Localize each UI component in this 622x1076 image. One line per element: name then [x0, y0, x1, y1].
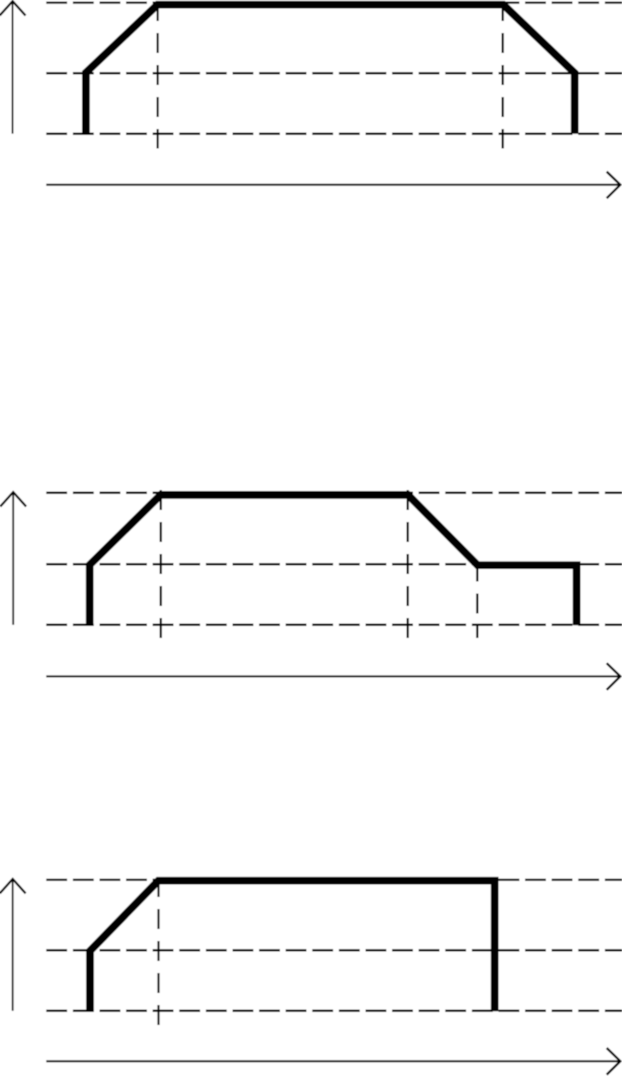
waveform trace (diagram 3 trapezoid with hard stop): [90, 881, 495, 1012]
y-axis arrow (diagram 2): [0, 492, 26, 625]
top dashed level line (diagram 1, v-max): [46, 1, 622, 3]
y-axis arrow (diagram 1): [0, 1, 25, 133]
bottom dashed level line (diagram 3, zero): [46, 1010, 622, 1012]
y-axis arrow (diagram 3): [0, 879, 26, 1011]
middle dashed level line (diagram 2, v-start): [46, 563, 622, 565]
vertical dashed guide t3 (diagram 2): [476, 562, 478, 639]
vertical dashed guide t1 (diagram 1): [157, 1, 159, 149]
vertical dashed guide t2 (diagram 2): [407, 490, 409, 639]
middle dashed level line (diagram 1, v-start): [46, 72, 622, 74]
bottom dashed level line (diagram 2, zero): [46, 624, 622, 626]
vertical dashed guide t1 (diagram 2): [160, 490, 162, 639]
x-axis arrow (diagram 1): [46, 172, 620, 199]
top dashed level line (diagram 2, v-max): [46, 492, 622, 494]
middle dashed level line (diagram 3, v-start): [46, 949, 622, 951]
waveform trace (diagram 1 trapezoid): [86, 5, 575, 134]
bottom dashed level line (diagram 1, zero): [46, 133, 622, 135]
vertical dashed guide t2 (diagram 1): [502, 1, 504, 149]
vertical dashed guide t1 (diagram 3): [157, 877, 159, 1026]
top dashed level line (diagram 3, v-max): [46, 879, 622, 881]
x-axis arrow (diagram 2): [46, 663, 620, 690]
waveform trace (diagram 2 trapezoid with step-down): [90, 495, 577, 625]
x-axis arrow (diagram 3): [46, 1048, 620, 1075]
